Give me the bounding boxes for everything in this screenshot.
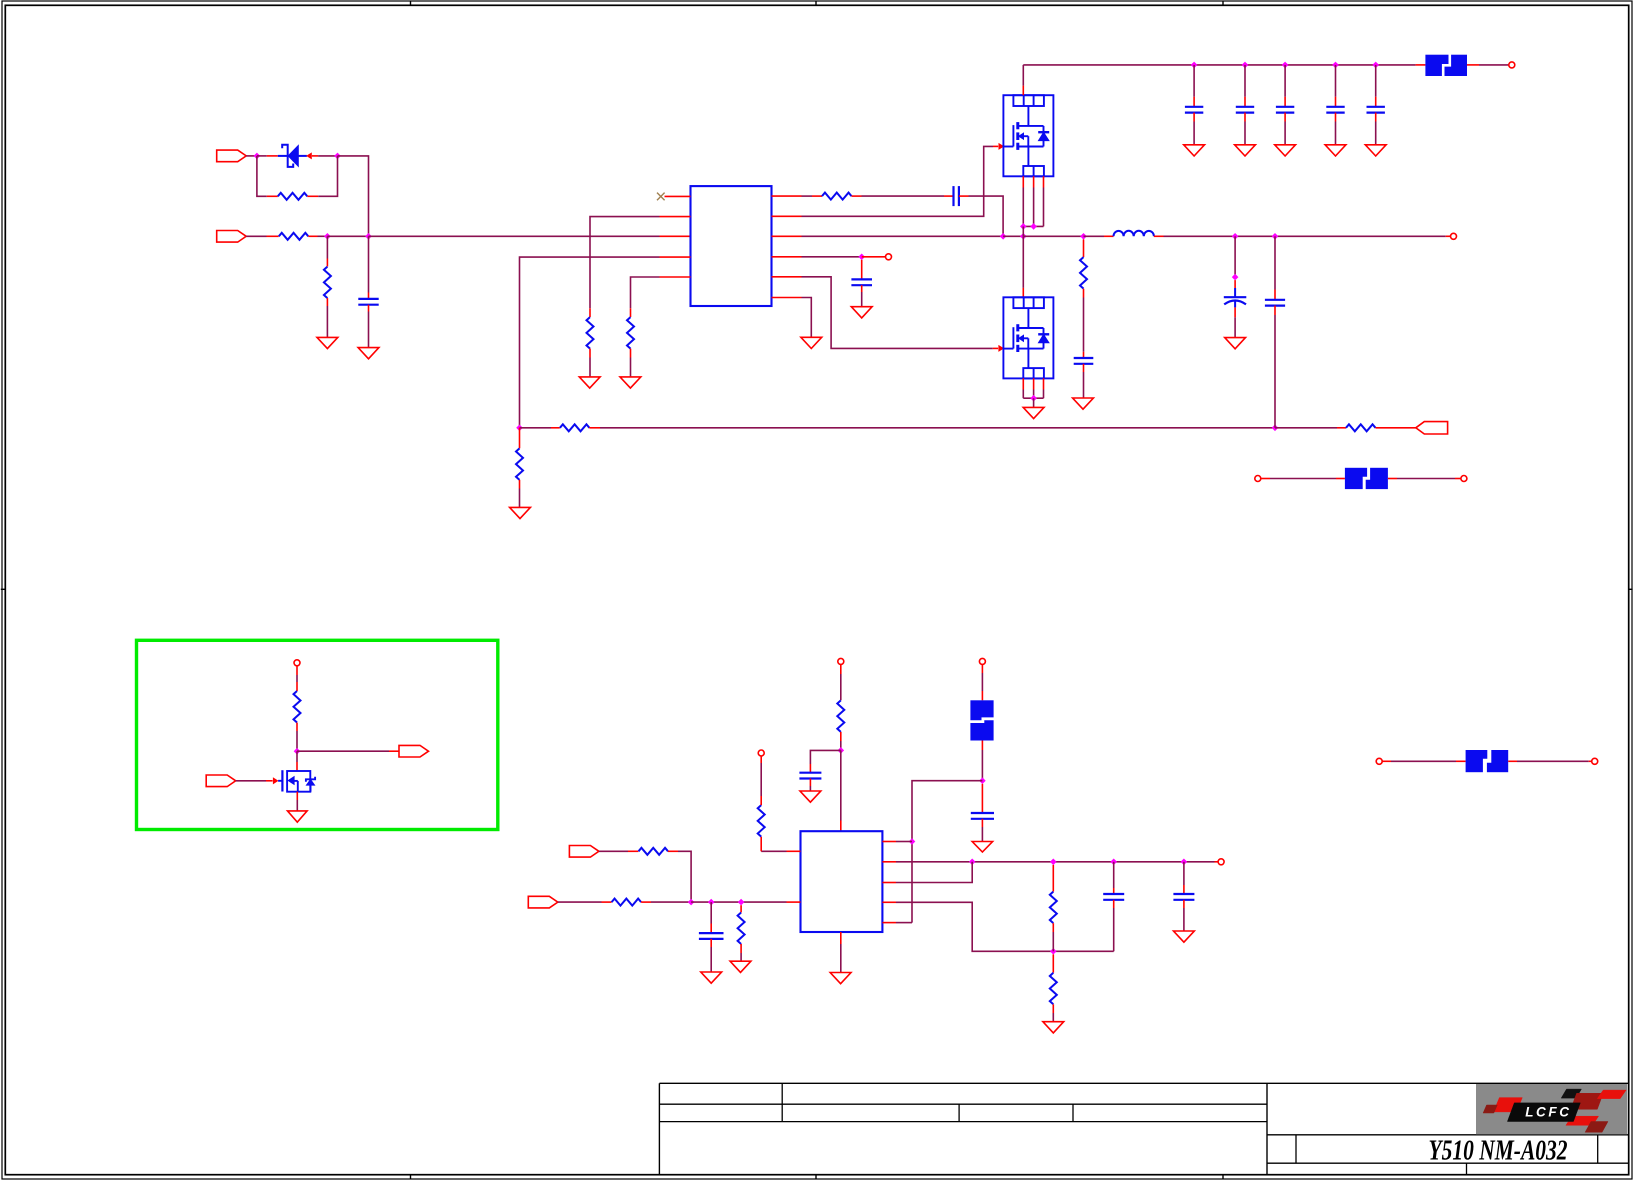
highlight box (137, 640, 498, 829)
junction (1272, 425, 1279, 432)
wire (1052, 954, 1054, 972)
wire (1113, 862, 1115, 888)
ground (510, 507, 531, 518)
wire (1375, 97, 1377, 107)
ground (800, 791, 821, 802)
junction (254, 153, 261, 160)
wire (519, 489, 521, 508)
capacitor C5 (1236, 107, 1254, 113)
wire (1234, 236, 1236, 277)
wire (1397, 478, 1455, 480)
wire (602, 901, 612, 903)
wire (1083, 364, 1085, 372)
wire (1274, 315, 1276, 428)
wire (1023, 235, 1083, 237)
wire (1215, 861, 1219, 863)
wire (1336, 478, 1345, 480)
wire (882, 922, 896, 924)
wire (389, 750, 399, 752)
resistor R4 (587, 317, 594, 348)
wire (1023, 225, 1043, 227)
wire (630, 349, 632, 358)
junction (1181, 859, 1188, 866)
ground (1043, 1022, 1064, 1033)
wire (969, 196, 1004, 236)
wire (297, 750, 389, 752)
wire (1023, 397, 1043, 399)
wire (368, 312, 370, 348)
wire (840, 741, 842, 750)
capacitor C6 (1276, 107, 1294, 113)
wire (862, 195, 945, 197)
wire (1391, 760, 1456, 762)
resistor R2 (279, 233, 309, 240)
wire (1335, 122, 1337, 145)
wire (1022, 390, 1024, 399)
wire (1376, 427, 1416, 429)
ground (620, 377, 641, 388)
wire (668, 850, 678, 852)
wire (1508, 760, 1517, 762)
wire (1022, 176, 1024, 187)
wire (630, 308, 632, 317)
net port (294, 660, 300, 666)
resistor R17 (1050, 973, 1057, 1005)
junction (1272, 233, 1279, 240)
wire (1022, 236, 1024, 288)
wire (266, 780, 273, 782)
wire (1375, 122, 1377, 145)
wire (1335, 97, 1337, 107)
junction (324, 233, 331, 240)
wire (589, 427, 600, 429)
resistor R14 (612, 899, 642, 906)
junction (838, 747, 845, 754)
wire (628, 850, 638, 852)
wire (840, 664, 842, 674)
wire (1284, 65, 1286, 97)
wire (296, 731, 298, 751)
wire (1083, 289, 1085, 298)
wire (1022, 188, 1024, 227)
wire (1274, 290, 1276, 300)
wire (312, 155, 318, 157)
wire (1052, 1013, 1054, 1022)
junction (858, 254, 865, 261)
inductor L1 (1114, 231, 1154, 236)
wire (1083, 352, 1085, 358)
wire (1043, 176, 1045, 187)
wire (1022, 378, 1024, 389)
wire (896, 922, 912, 924)
wire (1284, 113, 1286, 122)
wire (1446, 235, 1451, 237)
capacitor C14 (699, 933, 724, 939)
wire (981, 784, 983, 813)
wire (660, 276, 691, 278)
wire (882, 901, 896, 903)
ground (1073, 398, 1094, 409)
port P2 (217, 231, 247, 243)
wire (861, 292, 863, 307)
wire (296, 762, 298, 771)
wire (1052, 1004, 1054, 1013)
wire (326, 298, 328, 306)
wire (1164, 235, 1446, 237)
net port (1592, 758, 1598, 764)
junction (688, 899, 695, 906)
wire (1382, 760, 1391, 762)
junction (1030, 395, 1037, 402)
wire (710, 939, 712, 947)
wire (1183, 900, 1185, 908)
junction (1110, 859, 1117, 866)
wire (1467, 64, 1479, 66)
wire (710, 924, 712, 934)
net port (886, 254, 892, 260)
net port (1451, 233, 1457, 239)
wire (772, 297, 802, 299)
ground (358, 348, 379, 359)
resistor R11 (837, 700, 844, 732)
resistor R10 (1080, 257, 1087, 288)
wire (981, 741, 983, 751)
capacitor C11 (1074, 358, 1094, 364)
wire (1113, 908, 1115, 951)
junction (909, 838, 916, 845)
wire (840, 932, 842, 944)
ground (1225, 338, 1246, 349)
wire (520, 257, 660, 428)
ground (830, 973, 851, 984)
capacitor C13 (971, 813, 994, 819)
wire (1033, 188, 1035, 227)
wire (809, 779, 811, 787)
wire (787, 850, 801, 852)
wire (772, 276, 802, 278)
wire (1244, 97, 1246, 107)
net port (758, 750, 764, 756)
wire (307, 195, 318, 197)
wire (246, 235, 266, 237)
wire (981, 664, 983, 673)
wire (852, 195, 862, 197)
wire (896, 861, 1215, 863)
capacitor C16 (1173, 894, 1194, 900)
wire (1052, 923, 1054, 932)
wire (1234, 317, 1236, 337)
wire (802, 256, 862, 258)
wire (296, 666, 298, 675)
wire (981, 827, 983, 842)
wire (981, 691, 983, 700)
port P7 (206, 775, 236, 787)
net port (1255, 476, 1261, 482)
wire (1274, 236, 1276, 289)
svg-text:LCFC: LCFC (1525, 1105, 1571, 1120)
wire (1193, 65, 1195, 97)
resistor R12 (758, 805, 765, 837)
wire (551, 427, 560, 429)
junction (969, 859, 976, 866)
wire (1023, 64, 1415, 66)
wire (993, 347, 998, 349)
wire (896, 862, 972, 883)
wire (1479, 64, 1509, 66)
capacitor C12 (799, 773, 821, 779)
resistor R1 (278, 193, 308, 200)
wire (257, 155, 267, 157)
wire (740, 953, 742, 961)
no-connect pin (657, 193, 691, 201)
wire (678, 851, 691, 902)
wire (896, 902, 1114, 951)
wire (1244, 113, 1246, 122)
wire (840, 750, 842, 820)
capacitor C3 (851, 279, 872, 285)
wire (520, 427, 552, 429)
transistor Q1 (1003, 95, 1053, 176)
fuse F2 (970, 700, 994, 740)
ground (851, 307, 872, 318)
wire (882, 861, 896, 863)
wire (772, 256, 802, 258)
wire (1234, 307, 1236, 317)
wire (896, 841, 912, 843)
junction (1372, 62, 1379, 69)
ground (317, 337, 338, 348)
wire (599, 850, 628, 852)
ground (701, 972, 722, 983)
junction (1282, 62, 1289, 69)
wire (1052, 865, 1054, 892)
fuse F1 (1425, 54, 1467, 76)
net port (979, 658, 985, 664)
wire (809, 786, 811, 791)
junction (1242, 62, 1249, 69)
wire (802, 298, 812, 338)
resistor R18 (294, 691, 301, 723)
wire (590, 217, 660, 309)
junction (1050, 948, 1057, 955)
wire (981, 819, 983, 827)
wire (296, 751, 298, 762)
wire (327, 235, 368, 237)
wire (368, 236, 370, 292)
wire (1284, 122, 1286, 145)
wire (296, 792, 298, 800)
wire (1244, 122, 1246, 145)
wire (1083, 298, 1085, 352)
wire (1193, 113, 1195, 122)
wire (267, 235, 279, 237)
wire (981, 673, 983, 691)
wire (1154, 235, 1164, 237)
svg-text:Y510 NM-A032: Y510 NM-A032 (1429, 1136, 1568, 1167)
net port (1509, 62, 1515, 68)
wire (1375, 65, 1377, 97)
wire (1456, 760, 1466, 762)
junction (516, 425, 523, 432)
port P6 (399, 745, 429, 757)
wire (1043, 378, 1045, 389)
wire (1335, 113, 1337, 122)
wire (802, 195, 813, 197)
wire (1183, 908, 1185, 931)
wire (862, 256, 886, 258)
resistor R13 (639, 848, 669, 855)
wire (1033, 176, 1035, 187)
wire (1003, 235, 1023, 237)
wire (1022, 226, 1024, 236)
wire (1033, 390, 1035, 399)
wire (641, 901, 651, 903)
wire (760, 763, 762, 796)
wire (318, 235, 328, 237)
wire (861, 260, 863, 280)
wire (368, 305, 370, 312)
ground (1023, 407, 1044, 418)
ground (579, 377, 600, 388)
net port (838, 658, 844, 664)
wire (1455, 478, 1461, 480)
wire (1193, 122, 1195, 145)
wire (787, 901, 801, 903)
junction (1332, 62, 1339, 69)
wire (296, 675, 298, 682)
wire (944, 195, 954, 197)
wire (558, 901, 602, 903)
wire (1284, 97, 1286, 107)
wire (296, 723, 298, 731)
wire (1113, 900, 1115, 908)
wire (296, 682, 298, 691)
wire (1043, 390, 1045, 399)
IC U1 (691, 186, 772, 306)
wire (959, 195, 969, 197)
resistor R5 (627, 317, 634, 348)
wire (1337, 427, 1346, 429)
pin arrow (307, 153, 312, 159)
wire (308, 235, 317, 237)
wire (1104, 235, 1114, 237)
fuse F3 (1345, 467, 1388, 489)
wire (1589, 760, 1592, 762)
wire (809, 764, 811, 773)
wire (519, 480, 521, 489)
ground (288, 811, 308, 822)
wire (1043, 188, 1045, 227)
wire (318, 155, 337, 157)
junction (334, 153, 341, 160)
wire (1033, 398, 1035, 407)
wire (710, 947, 712, 972)
pin arrow (999, 144, 1004, 150)
capacitor C10 (1265, 300, 1285, 306)
wire (840, 821, 842, 832)
wire (772, 215, 802, 217)
net port (1376, 758, 1382, 764)
wire (326, 259, 328, 267)
resistor R6 (560, 424, 590, 431)
wire (1022, 86, 1024, 96)
wire (369, 235, 660, 237)
wire (691, 901, 786, 903)
resistor R7 (516, 448, 523, 479)
wire (1183, 885, 1185, 894)
wire (1183, 862, 1185, 885)
wire (1244, 65, 1246, 97)
net port (1218, 859, 1224, 865)
ground (1235, 145, 1256, 156)
junction (1000, 233, 1007, 240)
fuse F4 (1466, 750, 1509, 773)
ground (730, 961, 751, 972)
wire (1416, 64, 1426, 66)
wire (840, 732, 842, 741)
wire (740, 944, 742, 953)
wire (631, 277, 660, 308)
ground (1325, 145, 1346, 156)
ground (1174, 931, 1195, 942)
wire (1084, 235, 1105, 237)
wire (246, 155, 257, 157)
wire (740, 905, 742, 912)
wire (981, 750, 983, 781)
port P3 (1416, 422, 1448, 434)
wire (660, 256, 691, 258)
wire (660, 216, 691, 218)
net port (1461, 476, 1467, 482)
resistor R16 (1050, 892, 1057, 924)
wire (326, 236, 328, 258)
IC U2 (801, 831, 883, 932)
capacitor C8 (1367, 107, 1385, 113)
junction (1080, 233, 1087, 240)
junction (738, 899, 745, 906)
wire (368, 293, 370, 299)
ground (801, 337, 822, 348)
wire (651, 901, 691, 903)
wire (812, 195, 822, 197)
zener diode D1 (267, 145, 307, 167)
wire (589, 308, 591, 317)
wire (1052, 932, 1054, 951)
ground (1184, 145, 1205, 156)
wire (882, 882, 896, 884)
resistor R8 (1346, 424, 1376, 431)
port P1 (217, 150, 247, 162)
wire (760, 837, 762, 852)
junction (294, 748, 301, 755)
wire (810, 750, 840, 764)
wire (772, 195, 802, 197)
wire (710, 902, 712, 923)
wire (660, 235, 691, 237)
wire (840, 674, 842, 700)
wire (1270, 478, 1336, 480)
junction (1232, 233, 1239, 240)
capacitor C9 (polarized) (1224, 288, 1247, 307)
wire (760, 796, 762, 805)
wire (318, 156, 337, 196)
wire (1193, 97, 1195, 107)
wire (519, 428, 521, 449)
resistor R3 (324, 267, 331, 298)
junction (1050, 859, 1057, 866)
wire (338, 156, 369, 236)
wire (802, 235, 1004, 237)
